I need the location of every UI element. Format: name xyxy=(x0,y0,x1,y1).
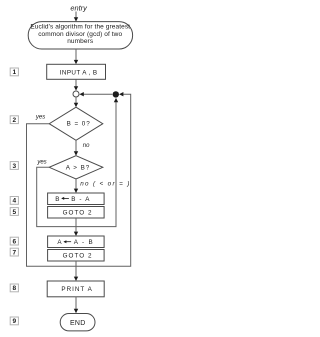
svg-text:B = 0?: B = 0? xyxy=(67,121,91,128)
svg-text:GOTO 2: GOTO 2 xyxy=(63,253,93,260)
svg-text:numbers: numbers xyxy=(67,38,94,45)
svg-text:A - B: A - B xyxy=(74,239,94,246)
svg-text:6: 6 xyxy=(12,238,16,245)
svg-text:2: 2 xyxy=(12,117,16,124)
step number 6 xyxy=(10,237,18,245)
process PRINT A xyxy=(47,281,104,297)
terminal END xyxy=(60,314,95,331)
process INPUT A, B xyxy=(47,64,106,79)
svg-text:INPUT A , B: INPUT A , B xyxy=(60,70,98,77)
svg-text:A > B?: A > B? xyxy=(66,165,90,172)
svg-text:no ( < or = ): no ( < or = ) xyxy=(80,180,130,187)
wire entry to terminal xyxy=(74,12,78,22)
svg-text:9: 9 xyxy=(12,318,16,325)
svg-text:Euclid's algorithm for the gre: Euclid's algorithm for the greatest xyxy=(30,23,130,30)
entry label xyxy=(70,3,88,12)
node merge dot xyxy=(113,91,119,97)
svg-text:entry: entry xyxy=(70,3,88,12)
svg-text:B - A: B - A xyxy=(71,196,90,203)
label yes (A>B branch) xyxy=(36,159,46,165)
step number 3 xyxy=(10,162,18,170)
wire goto2 first loop to merge dot xyxy=(76,98,118,227)
wire yes branch B=0 down to PRINT A xyxy=(27,124,79,281)
wire yes branch A>B down to process A←A-B xyxy=(37,167,78,236)
label yes (B=0 branch) xyxy=(35,114,45,120)
svg-text:8: 8 xyxy=(12,285,16,292)
svg-text:1: 1 xyxy=(12,69,16,76)
svg-text:3: 3 xyxy=(12,163,16,170)
step number 9 xyxy=(10,317,18,325)
node junction circle xyxy=(73,91,79,97)
wire print to end xyxy=(74,297,78,313)
decision A > B? xyxy=(49,156,103,179)
step number 5 xyxy=(10,208,18,216)
svg-text:no: no xyxy=(83,143,90,149)
wire decision B=0 to decision A>B xyxy=(74,140,78,155)
terminal Euclid's algorithm description xyxy=(28,22,132,49)
step number 4 xyxy=(10,197,18,205)
decision B = 0? xyxy=(49,107,103,140)
wire goto2 second loop to merge dot xyxy=(76,92,131,266)
svg-text:PRINT A: PRINT A xyxy=(61,286,92,293)
svg-text:common divisor (gcd) of two: common divisor (gcd) of two xyxy=(38,31,122,38)
wire merge dot to junction circle xyxy=(79,92,112,96)
process B ← B - A xyxy=(48,193,105,205)
process A ← A - B xyxy=(48,236,105,248)
step number 2 xyxy=(10,116,18,124)
wire decision A>B to process B←B-A xyxy=(74,179,78,193)
label no ( < or = ) xyxy=(80,180,130,187)
wire junction circle to decision B=0 xyxy=(74,97,78,107)
wire input to junction circle xyxy=(74,79,78,90)
svg-text:4: 4 xyxy=(12,198,16,205)
label no (B=0 branch) xyxy=(83,143,90,149)
svg-text:5: 5 xyxy=(12,209,16,216)
svg-text:yes: yes xyxy=(36,159,46,165)
svg-text:B: B xyxy=(55,196,59,203)
svg-text:yes: yes xyxy=(35,114,45,120)
process GOTO 2 (second) xyxy=(48,250,105,262)
step number 7 xyxy=(10,248,18,256)
step number 1 xyxy=(10,68,18,76)
svg-text:7: 7 xyxy=(12,249,16,256)
svg-text:GOTO 2: GOTO 2 xyxy=(63,210,93,217)
svg-text:END: END xyxy=(70,320,86,327)
wire terminal to input xyxy=(74,49,78,64)
process GOTO 2 (first) xyxy=(48,207,105,219)
step number 8 xyxy=(10,284,18,292)
